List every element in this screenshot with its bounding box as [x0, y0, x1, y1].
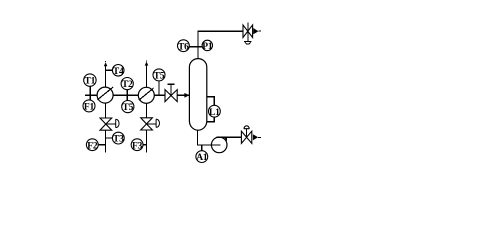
column C1	[189, 59, 206, 131]
heat exchanger E1	[97, 87, 113, 103]
valve V1 under E1 bowtie	[100, 118, 112, 130]
instrument bubble T5 upper	[153, 69, 165, 82]
svg-text:T4: T4	[113, 67, 124, 77]
svg-text:F3: F3	[132, 141, 143, 151]
heat exchanger E2	[138, 87, 154, 103]
arrow up vent E1 stub	[105, 61, 107, 62]
wire F3 tap	[143, 144, 148, 146]
arrow up vent E2 stub	[146, 60, 148, 61]
valve V5 bottoms bowtie	[241, 131, 251, 143]
wire F2 tap	[98, 144, 107, 146]
valve V2 under E2 bowtie	[141, 118, 153, 130]
valve V3 manual feed valve bowtie	[165, 90, 177, 102]
instrument bubble T5 lower	[122, 101, 134, 114]
valve V4 bottom vee	[245, 42, 251, 44]
instrument bubble T3	[112, 132, 124, 144]
instrument bubble T1	[84, 74, 96, 87]
wire T1-F1 stem	[89, 80, 91, 106]
svg-text:T1: T1	[85, 77, 96, 87]
valve V2 actuator stem	[147, 123, 157, 125]
instrument bubble T6	[178, 40, 190, 53]
valve V5 dome actuator	[244, 126, 250, 129]
wire T4 tap	[106, 69, 114, 71]
valve V5 stem	[246, 129, 248, 138]
instrument bubble F1	[83, 100, 95, 113]
heat exchanger E2 diagonal	[139, 88, 154, 100]
svg-text:T5: T5	[122, 103, 133, 113]
wire T3 tap	[106, 137, 113, 139]
valve V4 center stem	[247, 23, 249, 41]
pump P-101	[211, 137, 227, 153]
valve V3 stem	[170, 84, 172, 95]
arrow overhead product stub	[258, 30, 261, 32]
instrument bubble T4	[112, 65, 124, 77]
svg-text:L1: L1	[209, 108, 220, 118]
svg-text:T5: T5	[154, 72, 165, 82]
wire column riser	[198, 31, 243, 59]
instrument bubble P1	[202, 40, 213, 52]
wire T6-P1 tap	[183, 46, 207, 48]
arrow up vent E2	[145, 62, 149, 66]
heat exchanger E1 diagonal	[97, 87, 113, 100]
valve V4 bottom bar	[244, 40, 251, 42]
wire pump discharge line	[216, 136, 241, 138]
valve V4 overhead bowtie	[243, 25, 253, 38]
wire pump suction inside	[205, 144, 221, 146]
arrow bottoms product	[253, 134, 258, 140]
wire T2-T5 stem	[126, 84, 128, 107]
svg-text:F2: F2	[87, 141, 98, 151]
wire A1 stem	[201, 145, 203, 152]
instrument bubble F2	[86, 139, 98, 152]
svg-text:F1: F1	[84, 103, 95, 113]
valve V2 actuator D	[156, 119, 159, 127]
svg-text:T3: T3	[113, 135, 124, 145]
wire HX2 vertical utility line	[146, 64, 148, 153]
arrow feed into column	[184, 93, 189, 98]
pump volute notch	[224, 138, 227, 141]
svg-text:P1: P1	[202, 42, 213, 52]
wire T5 stem after HX2	[158, 75, 160, 95]
wire feed line	[85, 94, 189, 96]
svg-text:T6: T6	[178, 42, 189, 52]
svg-text:A1: A1	[196, 153, 208, 163]
svg-text:T2: T2	[122, 80, 133, 90]
wire L1 loop	[206, 97, 214, 122]
arrow overhead product	[253, 28, 258, 34]
arrow up vent E1	[104, 62, 108, 66]
arrow bottoms product stub	[258, 136, 261, 138]
instrument bubble T2	[121, 78, 133, 91]
instrument bubble F3	[131, 139, 143, 152]
instrument bubble A1	[196, 151, 208, 163]
instrument bubble L1	[209, 105, 221, 118]
valve V3 handle	[167, 83, 174, 85]
valve V1 actuator D	[116, 119, 119, 127]
wire HX1 vertical utility line	[105, 66, 107, 153]
valve V1 actuator stem	[106, 123, 116, 125]
wire column bottoms line	[197, 130, 212, 145]
